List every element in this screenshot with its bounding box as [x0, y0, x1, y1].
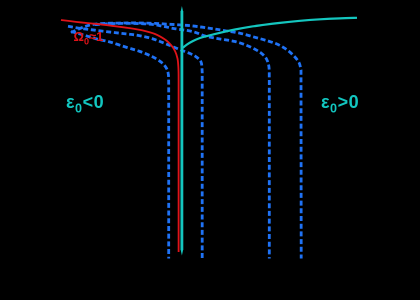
label epsilon_0 < 0 (teal): [66, 92, 104, 116]
closed-universe curve B3 (dashed blue): [95, 23, 269, 258]
closed-universe curve B4 (dashed blue, latest crunch): [71, 23, 301, 259]
closed-universe curve B1 (dashed blue, earliest crunch): [71, 32, 169, 259]
label Omega_0 ~ 1 (red): [74, 29, 104, 47]
closed-universe curve B2 (dashed blue): [68, 26, 202, 258]
critical-density curve, red: [61, 20, 179, 252]
label epsilon_0 > 0 (teal): [321, 92, 359, 116]
open-universe curve, teal rising branch: [183, 18, 357, 48]
teal vertical line (asymptote): [180, 11, 183, 250]
